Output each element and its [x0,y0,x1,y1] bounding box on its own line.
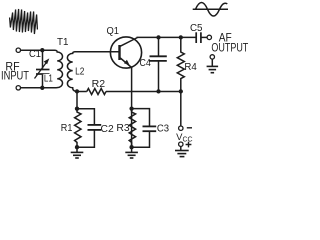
capacitor C4 [158,37,160,55]
wire: down to R1 node [76,92,78,109]
terminal: RF input bottom [16,86,20,90]
svg-text:C1: C1 [29,48,41,60]
svg-text:R2: R2 [92,78,106,90]
wire: bias rail left segment [77,91,87,93]
svg-text:OUTPUT: OUTPUT [211,42,248,54]
node: R4 top [179,35,183,39]
node: C1 bottom junction [40,86,44,90]
node: R4 bottom [179,89,183,93]
terminal: RF input top [16,48,20,52]
wire: RF input top to tank [21,49,55,51]
label: plus sign [186,142,192,148]
wire: rail to Vcc terminal [180,92,182,127]
capacitor C5 [195,32,197,43]
svg-text:R3: R3 [116,122,129,134]
svg-text:Q1: Q1 [107,25,120,37]
svg-text:C3: C3 [157,122,169,134]
inductor L1 (transformer primary) [55,50,63,88]
terminal: AF output ground side [210,55,214,59]
svg-text:C5: C5 [190,22,203,34]
svg-text:C4: C4 [140,57,151,69]
ground: Vcc [180,146,182,150]
capacitor C2 [77,109,94,124]
wire: L2 to Q1 base [75,51,119,53]
ground: R3 [131,147,133,152]
ground: R1 [76,147,78,152]
node: L2 bottom junction [75,89,79,93]
resistor R3 [129,109,135,148]
node: C4 bottom [156,89,160,93]
wire: RF input bottom to tank [21,87,55,89]
node: R3 top [129,106,133,110]
resistor R2 [87,89,106,95]
svg-text:L2: L2 [75,66,85,77]
capacitor C1 (variable) [42,50,44,68]
svg-text:INPUT: INPUT [1,69,30,83]
svg-text:R1: R1 [61,122,73,134]
ground: AF output [211,59,213,66]
svg-text:L1: L1 [44,73,53,84]
wire: bias rail right segment [106,91,181,93]
AF output audio waveform icon [193,8,228,10]
wire: collector rail [137,36,197,38]
battery terminal: Vcc minus [179,126,183,130]
terminal: AF output [207,35,211,39]
node: R1 top [75,107,79,111]
svg-text:R4: R4 [184,61,197,73]
wire: emitter down [131,67,133,147]
battery terminal: Vcc plus [179,142,183,146]
node: C1 top junction [40,48,44,52]
node: R3 bottom [129,145,133,149]
capacitor C3 [132,109,150,126]
node: R1 bottom [75,145,79,149]
node: C4 top [156,35,160,39]
resistor R4 [177,37,184,91]
svg-text:T1: T1 [57,36,69,48]
inductor L2 (transformer secondary) [67,52,77,91]
label: minus sign [187,127,192,129]
transistor Q1 [110,37,141,68]
svg-text:C2: C2 [101,123,114,135]
label L1 [43,74,53,82]
resistor R1 [75,109,81,148]
svg-text:VCC: VCC [176,132,192,144]
RF input modulated waveform icon [10,9,38,34]
